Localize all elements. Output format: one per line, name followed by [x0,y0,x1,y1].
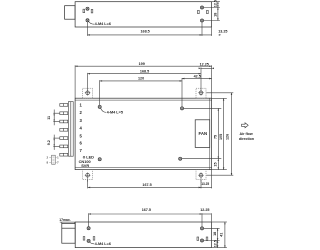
svg-text:8: 8 [47,162,49,164]
side view screw top-left [86,7,89,10]
svg-text:126: 126 [226,134,230,140]
side view label 4-M4 L=6 with leader [88,21,111,26]
terminal block comb [68,102,73,157]
side view screw bottom-left [86,19,89,22]
terminal 3 tooth [60,120,68,123]
svg-text:7: 7 [57,162,59,164]
svg-text:15: 15 [214,162,218,166]
side view vent slot right B [207,10,209,13]
svg-text:direction: direction [239,137,254,141]
svg-text:75: 75 [214,135,218,139]
dimension 13.25 bottom [201,186,212,188]
side view vent slot left B [91,9,93,13]
dimension 167.5 bottom [88,170,212,188]
svg-text:4-M4 L=5: 4-M4 L=5 [107,111,123,115]
side view vent slot right A [198,10,200,13]
svg-text:1: 1 [80,103,83,108]
terminal 6 tooth [60,145,68,148]
svg-text:4-M4 L=6: 4-M4 L=6 [95,242,111,246]
bottom view terminal cover protrusion [62,224,75,244]
svg-text:168.5: 168.5 [140,69,149,73]
pitch dimension 11 [53,110,59,126]
terminal 5 tooth [60,137,68,140]
flange mounting hole top-right (dashed) [196,88,206,98]
svg-text:4: 4 [80,126,83,131]
bottom view vent slot right B [206,237,208,240]
svg-text:6: 6 [80,141,83,146]
svg-text:167.5: 167.5 [142,183,151,187]
dimension 126 line [231,93,233,175]
svg-text:4-M4 L=6: 4-M4 L=6 [95,22,111,26]
svg-text:12.25: 12.25 [200,63,209,67]
bottom view vent slot left B [93,237,95,241]
svg-text:12.25: 12.25 [200,208,209,212]
bottom view vent slot left A [83,237,85,241]
connector pin labels [47,158,60,165]
side view vent slot left A [83,9,85,13]
svg-text:41: 41 [220,233,224,237]
top view case inner lip bottom [75,167,212,169]
top face screw top-left M4 [98,105,101,108]
svg-text:SVR: SVR [81,163,89,168]
fan opening FAN [195,120,210,148]
flange mounting hole top-left (dashed) [83,88,93,98]
dimension 12.25 top [201,67,212,69]
flange mounting hole bottom-right (dashed) [196,170,206,182]
dimension 105 line [223,98,225,169]
svg-text:168.5: 168.5 [141,30,150,34]
side view right dim column 12.5 / 18 [204,2,220,21]
pitch dimension 9.2 [53,135,59,150]
svg-text:12.5: 12.5 [214,0,218,7]
top view case inner lip top [75,99,212,101]
bottom view screw bottom-right [200,239,203,242]
svg-text:Air flow: Air flow [240,132,253,136]
LED indicator label [83,155,94,160]
svg-text:13.25: 13.25 [218,30,227,34]
side view dimension 168.5 [88,22,212,36]
bottom view screw top-right [200,227,203,230]
svg-text:13.25: 13.25 [201,182,209,186]
svg-text:17max.: 17max. [59,218,71,222]
svg-text:9.2: 9.2 [47,140,51,145]
dimension 168.5 top [88,67,201,90]
bottom view dimension 18 line [217,228,219,247]
svg-text:42.5: 42.5 [194,74,201,78]
svg-text:FAN: FAN [199,131,208,136]
side view screw bottom-right [200,19,203,22]
dimension 17max [60,221,75,223]
svg-text:18: 18 [213,232,217,236]
bottom view screw top-left [87,227,90,230]
dimension 75 line [217,108,219,169]
dimension 199 [75,65,212,98]
terminal 4 tooth [60,128,68,131]
top face screw top-right M4 [180,107,183,110]
dimension 120 [100,78,182,107]
svg-text:18: 18 [214,13,218,17]
svg-text:7: 7 [80,148,83,153]
bottom view vent slot right A [197,237,199,240]
dimension 42.5 [182,78,212,80]
terminal 7 tooth [60,153,68,156]
bottom view label 4-M4 L=6 with leader [89,242,111,246]
side view case outline [75,2,212,27]
connector CN100 [52,155,56,164]
terminal 2 tooth [60,112,68,115]
side view terminal cover protrusion [65,6,76,20]
dim arrowheads vertical [53,2,232,248]
bottom view dimension 41 line [224,222,226,248]
svg-text:5: 5 [80,133,83,138]
bottom view dimension 167.5 [89,213,212,227]
svg-text:2: 2 [80,110,83,115]
svg-text:167.5: 167.5 [142,208,151,212]
bottom view right dim leaders [204,222,227,248]
label 4-M4 L=5 with leader [101,108,123,115]
svg-text:12.5: 12.5 [213,240,217,247]
svg-text:1: 1 [57,158,59,160]
svg-text:199: 199 [139,62,145,66]
bottom view dimension 12.25 [202,213,211,215]
bottom view screw bottom-left [87,239,90,242]
flange mounting hole bottom-left (dashed) [83,170,93,182]
top face screw bottom-right M4 [179,157,182,160]
air flow arrow [242,123,249,128]
right dim column leaders [182,93,233,175]
terminal 1 tooth [60,104,68,107]
svg-text:11: 11 [47,116,51,120]
top view case outline [75,98,212,169]
terminal numbers 1-7 [80,103,83,153]
svg-text:120: 120 [138,77,144,81]
svg-text:2: 2 [47,158,49,160]
top face screw bottom-left M4 [98,158,101,161]
side view screw top-right [200,6,203,9]
svg-text:3: 3 [80,118,83,123]
bottom view case outline [75,222,211,248]
top view case inner lip right [209,98,211,169]
svg-text:105: 105 [219,134,223,140]
